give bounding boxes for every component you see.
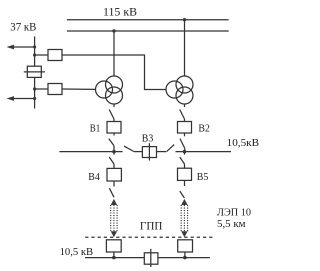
node junction left feed — [112, 29, 115, 32]
disconnector above B4 — [113, 152, 115, 155]
transformer T2 (three-winding) — [176, 76, 193, 93]
svg-text:10,5кВ: 10,5кВ — [227, 137, 260, 149]
arrow outgoing line 2 — [13, 98, 35, 100]
switch box S1 — [48, 50, 62, 61]
cable line left (LEP) — [111, 199, 117, 205]
svg-text:115 кВ: 115 кВ — [103, 6, 137, 18]
breaker B5 — [178, 168, 192, 180]
node junction branch A — [33, 53, 36, 56]
svg-text:ГПП: ГПП — [140, 219, 163, 233]
wire branch B to left transformer — [62, 88, 96, 90]
disconnector below B5 — [184, 180, 186, 186]
svg-text:В3: В3 — [142, 133, 154, 145]
breaker B4 — [107, 168, 121, 181]
breaker bottom section — [144, 253, 158, 264]
node junction B1/B4 — [112, 150, 116, 154]
node junction arrow1 — [33, 45, 36, 48]
boundary dashed line GPP — [85, 236, 213, 238]
wire 37kV vertical upper — [34, 36, 36, 66]
node junction branch B — [33, 87, 36, 90]
cable termination box left — [106, 240, 121, 252]
bus 10.5 kV bottom — [85, 257, 210, 259]
bus 115 kV lower line — [67, 30, 229, 32]
svg-text:В2: В2 — [198, 123, 210, 135]
arrow outgoing line 1 — [13, 46, 35, 48]
disconnector above B2 — [184, 104, 186, 107]
disconnector below B2 — [184, 133, 186, 136]
node junction arrow2 — [33, 97, 36, 100]
wire branch A to switch S1 — [35, 54, 48, 56]
wire right box to bottom bus — [184, 252, 186, 258]
wire feed left transformer — [113, 31, 115, 76]
wire branch A to right transformer — [62, 55, 166, 90]
wire feed right transformer — [184, 20, 186, 76]
bus 10.5 kV right section — [176, 151, 232, 153]
wire branch B to switch S2 — [35, 88, 48, 90]
svg-text:В1: В1 — [90, 122, 101, 134]
cable termination box right — [178, 240, 193, 252]
disconnector above B5 — [184, 152, 186, 155]
breaker B2 — [178, 122, 192, 134]
wire left box to bottom bus — [113, 252, 115, 258]
fuse F1 — [27, 66, 41, 77]
disconnector below B1 — [113, 133, 115, 136]
breaker B3 — [142, 147, 156, 158]
svg-text:В5: В5 — [197, 171, 209, 183]
disconnector left of B3 — [124, 146, 134, 151]
svg-text:ЛЭП 10: ЛЭП 10 — [217, 206, 251, 218]
svg-text:37 кВ: 37 кВ — [10, 21, 36, 33]
node junction right feed — [183, 18, 186, 21]
svg-text:10,5 кВ: 10,5 кВ — [60, 246, 94, 258]
disconnector below B4 — [113, 181, 115, 187]
disconnector above B1 — [113, 104, 115, 107]
switch box S2 — [48, 84, 62, 95]
disconnector right of B3 — [157, 151, 167, 153]
breaker B1 — [107, 122, 121, 134]
node junction B2/B5 — [183, 150, 187, 154]
bus 10.5 kV left section — [59, 151, 122, 153]
svg-text:В4: В4 — [88, 171, 100, 183]
bus 115 kV upper line — [67, 19, 229, 21]
svg-text:5,5 км: 5,5 км — [217, 218, 246, 230]
transformer T1 (three-winding) — [106, 76, 123, 93]
cable line right (LEP) — [181, 199, 187, 205]
wire 37kV vertical lower — [34, 77, 36, 108]
